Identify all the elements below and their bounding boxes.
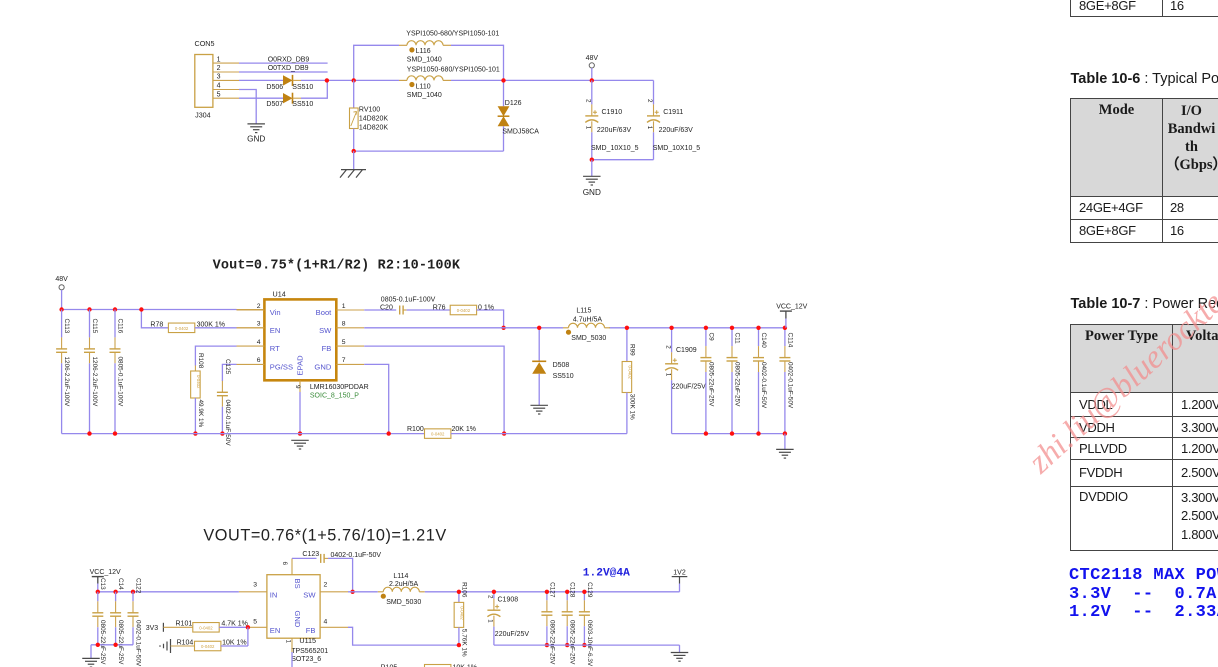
- svg-text:GND: GND: [583, 188, 601, 197]
- junction FB R106: [457, 643, 461, 647]
- wire pin2 net O0TXD_DB9: [239, 65, 328, 72]
- svg-text:220uF/63V: 220uF/63V: [659, 127, 694, 134]
- wire SW to L114: [348, 591, 378, 593]
- junction 48V rail at C116: [113, 307, 117, 311]
- wire VCC rail bottom: [98, 591, 267, 593]
- chassis ground symbol: [340, 170, 366, 178]
- svg-text:L110: L110: [416, 83, 431, 90]
- resistor R106 5.76K 1%: [454, 582, 467, 657]
- table 10-7: [1070, 324, 1218, 551]
- junction C11 top: [730, 326, 734, 330]
- junction D508 top: [537, 326, 541, 330]
- junction ground rail C115: [87, 431, 91, 435]
- svg-text:O0TXD_DB9: O0TXD_DB9: [268, 65, 309, 72]
- svg-text:0805-22uF-25V: 0805-22uF-25V: [707, 362, 714, 407]
- capacitor C1909 220uF/25V: [664, 328, 706, 434]
- svg-text:C125: C125: [224, 359, 231, 375]
- wire GND ground rail mid: [62, 433, 425, 435]
- power net VCC_12V terminal bottom: [90, 569, 121, 592]
- svg-text:0 1%: 0 1%: [478, 305, 494, 312]
- net label 3V3: [146, 623, 193, 632]
- table 10-7 title: [1071, 296, 1218, 312]
- svg-text:4: 4: [257, 339, 261, 346]
- svg-text:5: 5: [253, 619, 257, 626]
- wire down to ground: [591, 160, 593, 177]
- svg-text:0-0402: 0-0402: [431, 432, 445, 437]
- junction C128 bottom: [565, 643, 569, 647]
- capacitor C125 0402-0.1uF-50V: [217, 359, 231, 446]
- svg-text:SMD_1040: SMD_1040: [407, 92, 442, 99]
- svg-text:3V3: 3V3: [146, 625, 159, 632]
- svg-text:J304: J304: [195, 111, 211, 120]
- svg-text:EN: EN: [270, 326, 281, 335]
- capacitor C11 0805-22uF-25V: [727, 328, 741, 434]
- svg-text:5.76K 1%: 5.76K 1%: [461, 629, 468, 657]
- svg-text:C122: C122: [134, 578, 141, 594]
- svg-text:SS510: SS510: [292, 101, 313, 108]
- wire 1V2 output rail: [425, 591, 680, 593]
- junction R78 branch: [139, 307, 143, 311]
- svg-text:14D820K: 14D820K: [359, 125, 389, 132]
- resistor R105 clipped at bottom: [381, 665, 478, 667]
- svg-text:3: 3: [217, 74, 221, 81]
- svg-text:0402-0.1uF-50V: 0402-0.1uF-50V: [224, 400, 231, 447]
- svg-text:C115: C115: [91, 319, 98, 334]
- svg-text:1: 1: [285, 640, 292, 644]
- junction gnd C140: [756, 431, 760, 435]
- net label 1V2 terminal: [672, 569, 688, 591]
- svg-text:0805-0.1uF-100V: 0805-0.1uF-100V: [381, 296, 436, 303]
- junction C128 top: [565, 590, 569, 594]
- ground below C1910: [583, 176, 601, 197]
- svg-text:VCC_12V: VCC_12V: [776, 304, 807, 311]
- svg-text:1: 1: [646, 126, 653, 130]
- svg-text:6: 6: [281, 562, 288, 566]
- svg-text:SW: SW: [303, 590, 316, 599]
- wire RT pin to R108: [195, 346, 236, 365]
- svg-text:0-0402: 0-0402: [460, 606, 465, 620]
- junction C1908 top: [492, 590, 496, 594]
- svg-text:R76: R76: [433, 305, 446, 312]
- svg-text:EN: EN: [270, 626, 281, 635]
- svg-text:U115: U115: [299, 636, 316, 645]
- svg-text:SW: SW: [319, 326, 332, 335]
- ground bottom right: [671, 652, 689, 654]
- wire SW output net: [364, 327, 785, 329]
- inductor L115 4.7uH/5A: [563, 308, 610, 343]
- resistor R78 300K 1%: [141, 310, 264, 333]
- svg-text:SOT23_6: SOT23_6: [291, 656, 321, 663]
- wire PG/SS pin to C125: [222, 364, 236, 381]
- svg-text:C11: C11: [733, 333, 740, 345]
- junction EN divider: [246, 625, 250, 629]
- inductor L116 YSPI1050: [399, 30, 499, 63]
- svg-text:0-0402: 0-0402: [457, 308, 471, 313]
- junction L116 branch: [352, 78, 356, 82]
- svg-text:0-0402: 0-0402: [196, 375, 201, 389]
- junction boot to SW: [501, 326, 505, 330]
- junction R99 top: [625, 326, 629, 330]
- svg-text:7: 7: [342, 357, 346, 364]
- watermark: [1022, 264, 1218, 481]
- svg-text:220uF/25V: 220uF/25V: [495, 631, 530, 638]
- svg-text:0603-10uF-6.3V: 0603-10uF-6.3V: [586, 620, 593, 667]
- wire cap bottoms to GND: [592, 159, 654, 161]
- svg-text:2: 2: [257, 303, 261, 310]
- junction RV100 bottom: [352, 149, 356, 153]
- svg-text:SMDJ58CA: SMDJ58CA: [502, 129, 539, 136]
- svg-text:0-0402: 0-0402: [175, 326, 189, 331]
- ground below D508: [530, 404, 548, 406]
- capacitor C9 0805-22uF-25V: [700, 328, 714, 434]
- capacitor C123 0402-0.1uF-50V: [292, 551, 381, 592]
- junction C9 top: [704, 326, 708, 330]
- svg-text:O0RXD_DB9: O0RXD_DB9: [268, 56, 310, 63]
- junction gnd C9: [704, 431, 708, 435]
- svg-text:9: 9: [294, 385, 301, 389]
- svg-text:GND: GND: [314, 362, 331, 371]
- svg-text:1: 1: [664, 373, 671, 377]
- wire down to gnd bottom-left: [90, 645, 92, 658]
- svg-text:220uF/63V: 220uF/63V: [597, 127, 632, 134]
- svg-text:R99: R99: [629, 344, 636, 356]
- op-amp U115 TPS565201 buck regulator: [253, 558, 348, 663]
- svg-text:L116: L116: [416, 48, 431, 55]
- svg-text:C1911: C1911: [663, 109, 683, 116]
- svg-text:0402-0.1uF-50V: 0402-0.1uF-50V: [760, 362, 767, 409]
- svg-text:D508: D508: [553, 362, 570, 369]
- svg-text:2: 2: [487, 595, 494, 599]
- junction FB node: [502, 431, 506, 435]
- svg-text:4.7K 1%: 4.7K 1%: [221, 621, 247, 628]
- wire 48V rail mid: [62, 309, 265, 311]
- ground right mid: [776, 448, 794, 450]
- svg-text:L115: L115: [576, 308, 591, 315]
- table 10-6 title: [1071, 71, 1218, 87]
- svg-text:R101: R101: [176, 621, 193, 628]
- capacitor C20 0805-0.1uF-100V: [364, 296, 435, 314]
- varistor RV100 14D820K: [350, 80, 389, 151]
- svg-text:C114: C114: [786, 333, 793, 348]
- svg-text:3: 3: [253, 582, 257, 589]
- wire pin1 gnd down: [291, 652, 293, 667]
- svg-text:RT: RT: [270, 344, 280, 353]
- svg-text:1.2V@4A: 1.2V@4A: [583, 568, 630, 580]
- junction gnd C13: [96, 643, 100, 647]
- svg-text:R108: R108: [197, 353, 204, 369]
- svg-text:SMD_1040: SMD_1040: [407, 57, 442, 64]
- junction C129 top: [582, 590, 586, 594]
- svg-text:300K 1%: 300K 1%: [197, 321, 225, 328]
- svg-text:C113: C113: [63, 319, 70, 334]
- svg-text:1: 1: [217, 56, 221, 63]
- ground bottom-left: [82, 657, 100, 659]
- svg-text:D506: D506: [266, 84, 283, 91]
- svg-text:4: 4: [217, 83, 221, 90]
- svg-text:C1908: C1908: [498, 597, 519, 604]
- junction D126 top: [501, 78, 505, 82]
- svg-text:20K 1%: 20K 1%: [452, 426, 477, 433]
- svg-text:CON5: CON5: [195, 39, 215, 48]
- wire GND pin down: [364, 364, 389, 433]
- svg-text:R106: R106: [461, 582, 468, 598]
- capacitor C128 0805-22uF-25V: [562, 582, 576, 665]
- wire pin1 net O0RXD_DB9: [239, 56, 328, 63]
- svg-text:C13: C13: [99, 578, 106, 590]
- svg-text:2: 2: [217, 65, 221, 72]
- junction C1910 bottom: [590, 158, 594, 162]
- svg-text:2: 2: [324, 582, 328, 589]
- svg-text:4.7uH/5A: 4.7uH/5A: [573, 316, 603, 323]
- power net VCC_12V terminal: [776, 304, 807, 328]
- junction C129 bottom: [582, 643, 586, 647]
- junction 48V rail at C113: [59, 307, 63, 311]
- svg-text:D126: D126: [505, 100, 522, 107]
- junction ground rail C116: [113, 431, 117, 435]
- svg-text:48V: 48V: [586, 55, 599, 62]
- svg-text:RV100: RV100: [359, 106, 380, 113]
- wire pin4 to GND: [239, 90, 256, 124]
- resistor R104 10K 1%: [171, 639, 248, 650]
- capacitor C129 0603-10uF-6.3V: [579, 582, 593, 667]
- junction 48V rail at C115: [87, 307, 91, 311]
- capacitor C116 0805-0.1uF-100V: [110, 310, 124, 434]
- junction C123 to SW: [350, 590, 354, 594]
- svg-text:SS510: SS510: [553, 373, 574, 380]
- svg-text:1V2: 1V2: [673, 569, 686, 576]
- svg-text:U14: U14: [273, 289, 286, 298]
- op-amp U14 LMR16030PDDAR buck regulator: [237, 289, 369, 399]
- svg-text:C140: C140: [760, 333, 767, 349]
- wire EPAD to ground rail: [299, 392, 301, 434]
- wire R104 branch: [247, 627, 249, 646]
- svg-text:D507: D507: [266, 101, 283, 108]
- svg-text:300K 1%: 300K 1%: [629, 394, 636, 420]
- svg-text:0-0402: 0-0402: [199, 625, 213, 630]
- svg-text:0-0402: 0-0402: [201, 644, 215, 649]
- svg-text:C9: C9: [707, 333, 714, 342]
- junction rail C13: [96, 590, 100, 594]
- svg-text:PG/SS: PG/SS: [270, 362, 293, 371]
- svg-text:TPS565201: TPS565201: [291, 648, 328, 655]
- wire ground rail right mid: [672, 433, 785, 435]
- svg-text:C127: C127: [548, 582, 555, 598]
- svg-text:YSPI1050-680/YSPI1050-101: YSPI1050-680/YSPI1050-101: [407, 66, 500, 73]
- svg-text:C128: C128: [569, 582, 576, 598]
- svg-text:R104: R104: [177, 639, 194, 646]
- svg-text:0-0402: 0-0402: [628, 366, 633, 380]
- svg-text:C1910: C1910: [602, 109, 623, 116]
- capacitor C113 1206-2.2uF-100V: [56, 310, 70, 434]
- capacitor C140 0402-0.1uF-50V: [753, 328, 767, 434]
- svg-text:0805-22uF-25V: 0805-22uF-25V: [117, 620, 124, 665]
- svg-text:C1909: C1909: [676, 347, 697, 354]
- svg-text:VOUT=0.76*(1+5.76/10)=1.21V: VOUT=0.76*(1+5.76/10)=1.21V: [203, 526, 446, 544]
- svg-text:SMD_5030: SMD_5030: [571, 335, 606, 342]
- wire FB pin to divider: [364, 346, 504, 434]
- svg-text:2: 2: [664, 345, 671, 349]
- wire bottom loop of input filter: [354, 150, 504, 152]
- svg-text:C123: C123: [302, 551, 319, 558]
- CTC2118 power note: [1069, 567, 1218, 623]
- resistor R101 4.7K 1%: [176, 621, 267, 633]
- svg-text:SOIC_8_150_P: SOIC_8_150_P: [310, 392, 359, 399]
- svg-text:GND: GND: [247, 135, 265, 144]
- wire cap ground rail bottom-left: [91, 644, 133, 646]
- svg-text:5: 5: [217, 91, 221, 98]
- junction rail C14: [113, 590, 117, 594]
- svg-text:2: 2: [646, 99, 653, 103]
- power net 48V terminal: [586, 55, 599, 81]
- junction C127 top: [545, 590, 549, 594]
- svg-text:4: 4: [324, 619, 328, 626]
- junction 48V node: [590, 78, 594, 82]
- svg-text:SMD_10X10_5: SMD_10X10_5: [653, 145, 701, 152]
- resistor R100 20K 1%: [407, 426, 627, 438]
- junction gnd C11: [730, 431, 734, 435]
- svg-text:1: 1: [487, 619, 494, 623]
- svg-text:14D820K: 14D820K: [359, 115, 389, 122]
- svg-text:YSPI1050-680/YSPI1050-101: YSPI1050-680/YSPI1050-101: [406, 30, 499, 37]
- table 10-5 partial last row: [1070, 0, 1218, 17]
- svg-text:VCC_12V: VCC_12V: [90, 569, 121, 576]
- svg-text:C14: C14: [117, 578, 124, 590]
- svg-text:SS510: SS510: [292, 84, 313, 91]
- resistor R76 0 1%: [407, 305, 504, 328]
- wire to ground right mid: [784, 434, 786, 450]
- svg-text:1: 1: [342, 303, 346, 310]
- svg-text:LMR16030PDDAR: LMR16030PDDAR: [310, 384, 369, 391]
- capacitor C1911 220uF/63V: [646, 80, 700, 159]
- diode D506 SS510: [239, 75, 313, 91]
- junction gnd C114: [783, 431, 787, 435]
- svg-text:BS: BS: [293, 579, 302, 589]
- junction C140 top: [756, 326, 760, 330]
- svg-text:0402-0.1uF-50V: 0402-0.1uF-50V: [134, 620, 141, 667]
- svg-text:EPAD: EPAD: [296, 355, 305, 376]
- junction C1909 top: [669, 326, 673, 330]
- svg-text:3: 3: [257, 321, 261, 328]
- wire to chassis ground: [353, 151, 355, 170]
- svg-text:48V: 48V: [55, 276, 68, 283]
- wire gnd drop right bottom: [679, 645, 681, 652]
- capacitor C115 1206-2.2uF-100V: [84, 310, 98, 434]
- diode D508 SS510: [532, 328, 574, 406]
- table 10-6: [1070, 98, 1218, 243]
- svg-text:6: 6: [257, 357, 261, 364]
- wire FB net bottom: [348, 627, 459, 645]
- wire main 48V input net: [301, 79, 654, 81]
- svg-text:0805-22uF-25V: 0805-22uF-25V: [569, 620, 576, 665]
- junction R108 bottom: [193, 431, 197, 435]
- connector J304 CON5: [195, 39, 240, 119]
- capacitor C1908 220uF/25V: [487, 592, 530, 645]
- wire output ground rail: [494, 644, 680, 646]
- ground below U14 EPAD: [291, 439, 309, 441]
- svg-text:8: 8: [342, 321, 346, 328]
- ground small left of R104: [159, 639, 170, 653]
- svg-text:Vin: Vin: [270, 308, 281, 317]
- resistor R99 300K 1%: [622, 328, 635, 434]
- wire D507 up to main net: [301, 80, 327, 98]
- junction EPAD ground: [298, 431, 302, 435]
- inductor L110 YSPI1050: [399, 66, 500, 99]
- capacitor C122 0402-0.1uF-50V: [128, 578, 142, 667]
- svg-text:5: 5: [342, 339, 346, 346]
- svg-text:IN: IN: [270, 590, 278, 599]
- svg-text:FB: FB: [306, 626, 316, 635]
- svg-text:Boot: Boot: [316, 308, 333, 317]
- svg-text:FB: FB: [322, 344, 332, 353]
- svg-text:SMD_5030: SMD_5030: [386, 599, 421, 606]
- svg-text:0805-22uF-25V: 0805-22uF-25V: [548, 620, 555, 665]
- inductor L114 2.2uH/5A: [378, 573, 425, 606]
- svg-text:0805-0.1uF-100V: 0805-0.1uF-100V: [116, 357, 123, 407]
- svg-text:SMD_10X10_5: SMD_10X10_5: [591, 145, 639, 152]
- svg-text:Vout=0.75*(1+R1/R2) R2:10-100: Vout=0.75*(1+R1/R2) R2:10-100K: [213, 259, 461, 274]
- svg-text:GND: GND: [293, 611, 302, 628]
- svg-text:10K 1%: 10K 1%: [222, 639, 247, 646]
- svg-text:R78: R78: [150, 321, 163, 328]
- svg-text:0402-0.1uF-50V: 0402-0.1uF-50V: [786, 362, 793, 409]
- svg-text:2: 2: [584, 99, 591, 103]
- capacitor C114 0402-0.1uF-50V: [779, 328, 793, 434]
- svg-text:R100: R100: [407, 426, 424, 433]
- resistor R108 49.9K 1%: [191, 353, 204, 434]
- capacitor C127 0805-22uF-25V: [541, 582, 555, 665]
- junction gnd C14: [113, 643, 117, 647]
- ground below J304: [247, 124, 265, 144]
- power net 48V terminal mid: [55, 276, 68, 310]
- svg-text:1206-2.2uF-100V: 1206-2.2uF-100V: [63, 357, 70, 407]
- junction C114 top: [783, 326, 787, 330]
- diode D507 SS510: [239, 93, 313, 108]
- junction GND pin: [387, 431, 391, 435]
- svg-text:0805-22uF-25V: 0805-22uF-25V: [99, 620, 106, 665]
- svg-text:L114: L114: [393, 573, 408, 580]
- junction C127 bottom: [545, 643, 549, 647]
- svg-text:C116: C116: [116, 319, 123, 334]
- capacitor C14 0805-22uF-25V: [110, 578, 124, 665]
- junction main net: [325, 78, 329, 82]
- junction R106 top: [457, 590, 461, 594]
- svg-text:C129: C129: [586, 582, 593, 598]
- capacitor C13 0805-22uF-25V: [92, 578, 106, 665]
- svg-text:220uF/25V: 220uF/25V: [672, 384, 707, 391]
- junction C125 bottom: [220, 431, 224, 435]
- svg-text:49.9K 1%: 49.9K 1%: [197, 400, 204, 428]
- TVS diode D126 SMDJ58CA: [498, 80, 540, 151]
- capacitor C1910 220uF/63V: [584, 80, 638, 159]
- svg-text:0805-22uF-25V: 0805-22uF-25V: [733, 362, 740, 407]
- junction rail C122: [131, 590, 135, 594]
- wire top loop for L116: [354, 45, 504, 80]
- svg-text:1206-2.2uF-100V: 1206-2.2uF-100V: [91, 357, 98, 407]
- svg-text:1: 1: [584, 126, 591, 130]
